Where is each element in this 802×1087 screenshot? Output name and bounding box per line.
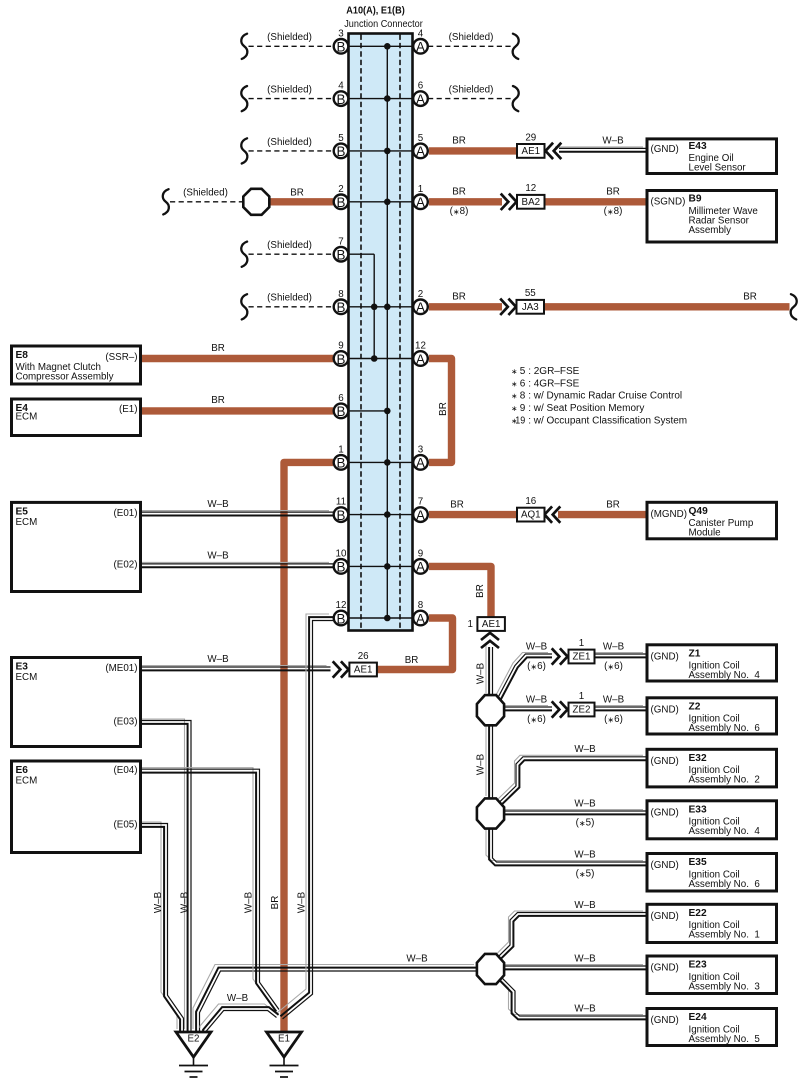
svg-text:W–B: W–B [603,694,625,705]
svg-text:(Shielded): (Shielded) [267,137,312,148]
svg-text:W–B: W–B [476,662,487,684]
svg-text:A: A [416,144,425,159]
svg-text:Assembly No. 1: Assembly No. 1 [689,930,760,941]
svg-text:E1: E1 [278,1034,290,1045]
svg-text:16: 16 [525,496,536,507]
svg-text:W–B: W–B [207,499,229,510]
svg-text:6: 6 [520,378,526,389]
svg-text:W–B: W–B [297,891,308,913]
svg-text:BR: BR [270,896,281,910]
svg-text:W–B: W–B [153,891,164,913]
svg-text:AE1: AE1 [482,619,501,630]
svg-text:(Shielded): (Shielded) [183,188,228,199]
svg-text:B9: B9 [689,194,702,205]
svg-text:ECM: ECM [16,517,38,528]
svg-text:6: 6 [418,81,424,92]
svg-text:B: B [337,300,346,315]
svg-text:4: 4 [338,81,344,92]
svg-text:2: 2 [338,184,343,195]
svg-text:(E01): (E01) [114,508,138,519]
svg-text:6: 6 [338,393,344,404]
svg-text:8: 8 [418,600,424,611]
svg-text:1: 1 [579,691,584,702]
svg-text:W–B: W–B [180,891,191,913]
svg-text:: w/ Dynamic Radar Cruise Cont: : w/ Dynamic Radar Cruise Control [528,391,682,402]
svg-text:(E03): (E03) [114,716,138,727]
svg-text:Z2: Z2 [689,701,701,712]
svg-text:Module: Module [689,528,722,539]
svg-text:8: 8 [520,391,526,402]
svg-text:: 4GR–FSE: : 4GR–FSE [528,378,579,389]
svg-text:8: 8 [338,289,344,300]
svg-text:55: 55 [525,288,536,299]
svg-text:5: 5 [520,366,526,377]
svg-text:12: 12 [336,600,347,611]
svg-text:W–B: W–B [526,694,548,705]
svg-text:B: B [337,40,346,55]
svg-text:W–B: W–B [574,849,596,860]
svg-text:A: A [416,40,425,55]
svg-text:2: 2 [418,289,423,300]
svg-text:B: B [337,611,346,626]
svg-text:W–B: W–B [244,891,255,913]
svg-text:B: B [337,404,346,419]
svg-text:1: 1 [468,619,473,630]
svg-text:BR: BR [606,187,620,198]
svg-text:W–B: W–B [574,1003,596,1014]
svg-text:B: B [337,248,346,263]
svg-text:B: B [337,195,346,210]
svg-text:7: 7 [418,497,423,508]
svg-text:1: 1 [418,184,423,195]
svg-text:B: B [337,560,346,575]
svg-text:10: 10 [336,549,347,560]
svg-text:BR: BR [450,499,464,510]
svg-text:E32: E32 [689,753,707,764]
svg-text:(Shielded): (Shielded) [267,32,312,43]
svg-text:1: 1 [579,638,584,649]
svg-text:BR: BR [452,136,466,147]
svg-text:(MGND): (MGND) [651,509,687,520]
svg-text:Compressor Assembly: Compressor Assembly [16,371,114,382]
svg-text:(GND): (GND) [651,756,679,767]
svg-text:B: B [337,456,346,471]
svg-text:E23: E23 [689,960,707,971]
svg-text:(E05): (E05) [114,819,138,830]
svg-text:(∗6): (∗6) [527,714,546,725]
svg-text:A: A [416,560,425,575]
svg-text:(∗5): (∗5) [576,818,595,829]
svg-text:11: 11 [336,497,346,508]
svg-text:: w/ Occupant Classification S: : w/ Occupant Classification System [528,416,687,427]
svg-text:Z1: Z1 [689,648,701,659]
svg-text:3: 3 [418,445,424,456]
svg-text:W–B: W–B [227,993,249,1004]
svg-text:A: A [416,195,425,210]
svg-text:ZE1: ZE1 [573,652,591,663]
svg-text:ECM: ECM [16,672,38,683]
svg-text:B: B [337,144,346,159]
svg-text:E43: E43 [689,141,707,152]
svg-text:A: A [416,508,425,523]
svg-text:(SGND): (SGND) [651,197,686,208]
svg-text:B: B [337,352,346,367]
svg-text:: w/ Seat Position Memory: : w/ Seat Position Memory [528,403,644,414]
svg-text:5: 5 [338,133,344,144]
svg-text:9: 9 [338,341,343,352]
svg-text:W–B: W–B [526,641,548,652]
svg-text:A10(A), E1(B): A10(A), E1(B) [346,6,405,17]
svg-text:E6: E6 [16,765,29,776]
svg-text:26: 26 [358,651,369,662]
svg-text:Assembly No. 5: Assembly No. 5 [689,1034,761,1045]
svg-text:W–B: W–B [207,654,229,665]
svg-text:(∗6): (∗6) [527,661,546,672]
svg-text:(SSR–): (SSR–) [105,352,137,363]
svg-text:(GND): (GND) [651,860,679,871]
svg-text:Q49: Q49 [689,506,709,517]
svg-text:BR: BR [452,292,466,303]
svg-text:(Shielded): (Shielded) [267,293,312,304]
svg-text:W–B: W–B [207,551,229,562]
svg-text:A: A [416,611,425,626]
svg-text:AQ1: AQ1 [521,510,541,521]
svg-text:12: 12 [525,183,536,194]
svg-text:W–B: W–B [476,753,487,775]
svg-text:19: 19 [515,416,525,427]
svg-text:JA3: JA3 [522,302,539,313]
svg-text:(Shielded): (Shielded) [449,32,494,43]
svg-text:A: A [416,352,425,367]
svg-text:3: 3 [338,28,344,39]
svg-text:BR: BR [743,292,757,303]
svg-text:(GND): (GND) [651,652,679,663]
svg-text:Assembly No. 6: Assembly No. 6 [689,723,761,734]
svg-text:1: 1 [338,445,343,456]
svg-text:∗: ∗ [511,392,517,401]
svg-text:(∗8): (∗8) [450,206,469,217]
svg-text:AE1: AE1 [354,665,373,676]
svg-text:BR: BR [290,188,304,199]
svg-text:(E1): (E1) [119,404,138,415]
svg-text:(GND): (GND) [651,808,679,819]
svg-text:BR: BR [211,395,225,406]
svg-text:ECM: ECM [16,776,38,787]
svg-text:AE1: AE1 [522,146,541,157]
svg-text:BR: BR [475,584,486,598]
svg-text:(∗8): (∗8) [604,206,623,217]
svg-text:(GND): (GND) [651,144,679,155]
svg-text:(GND): (GND) [651,705,679,716]
svg-text:Assembly No. 4: Assembly No. 4 [689,826,761,837]
svg-text:(Shielded): (Shielded) [449,85,494,96]
svg-text:B: B [337,92,346,107]
svg-text:E24: E24 [689,1012,707,1023]
svg-text:(E02): (E02) [114,560,138,571]
svg-text:7: 7 [338,236,343,247]
svg-text:W–B: W–B [406,954,428,965]
svg-text:(∗6): (∗6) [604,661,623,672]
svg-text:∗: ∗ [511,404,517,413]
svg-text:: 2GR–FSE: : 2GR–FSE [528,366,579,377]
svg-text:(GND): (GND) [651,1015,679,1026]
svg-text:Assembly No. 6: Assembly No. 6 [689,879,761,890]
svg-text:BR: BR [438,402,449,416]
svg-text:A: A [416,456,425,471]
svg-text:BR: BR [405,655,419,666]
svg-text:E3: E3 [16,662,29,673]
svg-text:12: 12 [415,341,426,352]
svg-text:B: B [337,508,346,523]
svg-text:∗: ∗ [511,367,517,376]
svg-text:(Shielded): (Shielded) [267,240,312,251]
svg-text:(GND): (GND) [651,963,679,974]
svg-text:(E04): (E04) [114,765,138,776]
svg-text:4: 4 [418,28,424,39]
svg-text:29: 29 [525,132,536,143]
svg-text:Assembly: Assembly [689,225,732,236]
svg-text:Assembly No. 4: Assembly No. 4 [689,670,761,681]
svg-text:5: 5 [418,133,424,144]
svg-text:(Shielded): (Shielded) [267,85,312,96]
svg-text:9: 9 [418,549,423,560]
svg-text:Assembly No. 2: Assembly No. 2 [689,775,760,786]
svg-text:W–B: W–B [574,954,596,965]
svg-text:E35: E35 [689,857,707,868]
svg-text:BA2: BA2 [522,197,541,208]
svg-text:A: A [416,92,425,107]
svg-text:E33: E33 [689,804,707,815]
svg-text:ECM: ECM [16,412,38,423]
svg-text:(ME01): (ME01) [105,663,137,674]
svg-text:Junction Connector: Junction Connector [344,19,423,30]
svg-text:BR: BR [211,343,225,354]
svg-text:BR: BR [452,187,466,198]
svg-text:(∗6): (∗6) [604,714,623,725]
svg-text:W–B: W–B [602,136,624,147]
svg-text:W–B: W–B [574,900,596,911]
svg-text:9: 9 [520,403,526,414]
svg-text:ZE2: ZE2 [573,705,591,716]
svg-text:E22: E22 [689,908,707,919]
svg-text:(GND): (GND) [651,911,679,922]
svg-text:E8: E8 [16,350,29,361]
svg-text:W–B: W–B [574,744,596,755]
svg-text:Assembly No. 3: Assembly No. 3 [689,981,761,992]
svg-text:W–B: W–B [603,641,625,652]
svg-text:BR: BR [606,499,620,510]
svg-text:Level Sensor: Level Sensor [689,163,747,174]
svg-text:E2: E2 [188,1034,200,1045]
svg-text:(∗5): (∗5) [576,869,595,880]
svg-text:W–B: W–B [574,798,596,809]
svg-text:∗: ∗ [511,379,517,388]
svg-text:A: A [416,300,425,315]
